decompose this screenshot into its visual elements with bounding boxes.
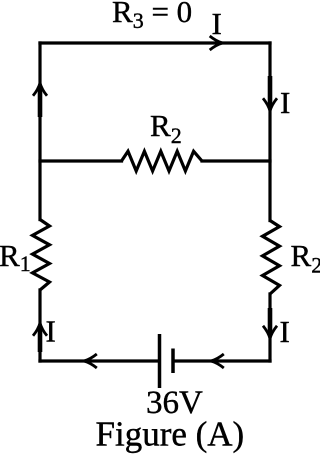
arrow stem right top xyxy=(268,76,273,108)
arrow head down right top xyxy=(263,98,277,111)
svg-text:R2: R2 xyxy=(150,108,182,148)
wire bottom right xyxy=(175,359,270,362)
resistor R1 zigzag xyxy=(33,220,50,291)
battery plate short (negative) xyxy=(171,349,175,374)
wire right upper xyxy=(268,43,271,221)
svg-text:I: I xyxy=(46,314,56,349)
wire middle left xyxy=(40,159,122,162)
svg-text:I: I xyxy=(280,314,290,349)
resistor R2 middle zigzag xyxy=(122,151,203,171)
arrow stem right bottom xyxy=(268,308,273,335)
arrow stem left bottom xyxy=(38,326,43,352)
arrow stem left top xyxy=(38,86,43,117)
arrow head left on bottom wire right xyxy=(211,354,224,368)
resistor R2 right zigzag xyxy=(263,221,280,295)
arrow head up left bottom xyxy=(33,323,47,336)
arrow head right on top wire xyxy=(210,36,223,50)
wire top (node between R3 branch corners) xyxy=(40,41,270,44)
svg-text:I: I xyxy=(212,6,222,41)
arrow head left on bottom wire left xyxy=(84,354,97,368)
svg-text:R1: R1 xyxy=(0,238,31,276)
wire right lower xyxy=(268,294,271,361)
svg-text:Figure (A): Figure (A) xyxy=(96,415,245,454)
wire left upper xyxy=(38,43,41,220)
arrow head up left top xyxy=(33,83,47,96)
svg-text:I: I xyxy=(280,85,290,120)
wire middle right xyxy=(202,159,270,162)
svg-text:R2: R2 xyxy=(291,238,320,278)
wire bottom left xyxy=(40,359,158,362)
battery plate long (positive) xyxy=(158,334,162,388)
arrow head down right bottom xyxy=(263,326,277,339)
svg-text:R3 = 0: R3 = 0 xyxy=(112,0,192,33)
wire left lower xyxy=(38,290,41,361)
